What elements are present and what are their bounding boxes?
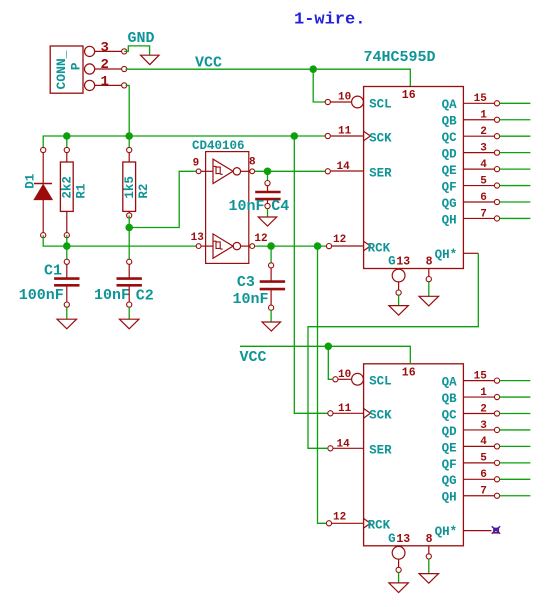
svg-text:RCK: RCK (368, 519, 391, 533)
capacitor C2 (117, 279, 142, 286)
wire C4 to ground (267, 209, 269, 218)
svg-text:74HC595D: 74HC595D (364, 49, 436, 66)
svg-text:2: 2 (480, 126, 487, 138)
wire VCC rail 2 (240, 346, 410, 364)
inverter gate 2 hysteresis mark (214, 241, 223, 249)
pin end gate 2 output (250, 244, 255, 249)
resistor R1 body (60, 162, 73, 211)
wire U1 QA output (500, 102, 531, 104)
U1 RCK clock wedge (364, 241, 371, 251)
U1 SCK pin line (331, 135, 364, 137)
svg-text:P: P (68, 62, 83, 70)
pin end C3 top (269, 263, 274, 268)
wire R1 top stub (66, 136, 68, 150)
svg-text:QA: QA (442, 98, 458, 112)
resistor R2 body (123, 162, 136, 211)
svg-text:QG: QG (442, 474, 457, 488)
pin end U1 SER (325, 169, 330, 174)
svg-text:QH: QH (442, 213, 457, 227)
capacitor C4 (255, 192, 280, 199)
pin end U2 QG (494, 477, 499, 482)
U1 pin 8 line (428, 269, 430, 277)
U2 SCK pin line (331, 412, 364, 414)
wire R2 top stub (128, 136, 130, 150)
svg-text:2k2: 2k2 (60, 176, 74, 199)
connector pin 1 line (95, 84, 122, 86)
U2 RCK pin line (332, 522, 364, 524)
wire U1 G to ground (398, 295, 400, 306)
wire gate2 output to RCK U1 (255, 245, 327, 247)
pin end R1 bottom (64, 233, 69, 238)
U1 QA pin line (463, 102, 494, 104)
pin end connector 2 (122, 66, 127, 71)
junction C3 tap (267, 242, 275, 250)
svg-text:16: 16 (402, 89, 416, 102)
pin end C1 bottom (64, 302, 69, 307)
inverter gate 1 bubble (233, 168, 240, 175)
pin end U2 RCK (326, 521, 331, 526)
svg-text:C1: C1 (44, 263, 62, 280)
U2 QA pin line (463, 380, 494, 382)
junction C4 tap (264, 168, 272, 176)
U1 QB pin line (463, 119, 494, 121)
U1 QF pin line (463, 185, 494, 187)
svg-text:SER: SER (369, 444, 392, 458)
svg-text:14: 14 (337, 161, 351, 173)
diode D1 leads (42, 153, 44, 184)
U2 SCL pin line (338, 378, 352, 380)
wire U1 QH* to U2 SER (308, 253, 478, 448)
pin end gate 2 input (196, 244, 201, 249)
wire U1 QE output (500, 168, 531, 170)
svg-text:G: G (388, 255, 396, 269)
svg-text:8: 8 (249, 156, 256, 168)
pin end D1 top (41, 147, 46, 152)
pin end U1 QD (494, 150, 499, 155)
U2 G pin line (398, 559, 400, 567)
inverter gate 2 bubble (233, 242, 240, 249)
U1 SER pin line (330, 170, 363, 172)
diode D1 lead bottom (42, 200, 44, 233)
ground symbol U2 G (389, 583, 409, 593)
svg-text:SER: SER (369, 166, 392, 180)
wire U1 QD output (500, 152, 531, 154)
svg-text:12: 12 (333, 234, 346, 246)
svg-text:VCC: VCC (240, 349, 267, 366)
inverter U3 body box (206, 152, 249, 264)
svg-text:4: 4 (480, 159, 487, 171)
shift register U2 body (364, 364, 464, 546)
junction R2/C2 node (125, 224, 133, 232)
ground symbol U2 pin8 (419, 574, 439, 584)
pin end gate 1 output (250, 169, 255, 174)
U1 RCK pin line (332, 245, 364, 247)
pin end U1 QB (494, 117, 499, 122)
wire U1 pin8 to ground (428, 282, 430, 297)
pin end U1 QG (494, 199, 499, 204)
svg-text:13: 13 (396, 533, 410, 546)
junction VCC / SCL drop (309, 65, 317, 73)
pin end U1 QH (494, 216, 499, 221)
wire RCK to U2 (318, 246, 327, 523)
connector pin 2 line (95, 68, 122, 70)
pin end U1 QE (494, 167, 499, 172)
pin end C4 top (265, 181, 270, 186)
wire U2 QB output (500, 396, 531, 398)
svg-text:15: 15 (474, 93, 488, 105)
svg-text:3: 3 (101, 40, 109, 56)
svg-text:3: 3 (480, 142, 487, 154)
svg-text:QE: QE (442, 441, 457, 455)
svg-text:1: 1 (480, 387, 487, 399)
svg-text:QD: QD (442, 425, 458, 439)
svg-text:1k5: 1k5 (123, 176, 137, 199)
pin end connector 1 (122, 83, 127, 88)
svg-text:2: 2 (480, 403, 487, 415)
svg-text:12: 12 (254, 233, 267, 245)
U1 G pin line (398, 282, 400, 290)
wire U1 QB output (500, 119, 531, 121)
pin end U2 QH (494, 493, 499, 498)
svg-text:10nF: 10nF (229, 198, 265, 215)
ground symbol C1 (57, 319, 77, 329)
resistor R2 lead top (128, 153, 130, 162)
wire C3 tap down (270, 246, 272, 265)
U1 QC pin line (463, 135, 494, 137)
svg-text:G: G (388, 532, 396, 546)
U2 QH pin line (463, 495, 494, 497)
connector pin 3 line (95, 50, 122, 52)
pin end U1 QF (494, 183, 499, 188)
svg-text:SCL: SCL (369, 97, 392, 111)
svg-text:10: 10 (338, 369, 351, 381)
svg-text:11: 11 (338, 126, 352, 138)
U2 pin 8 line (428, 546, 430, 554)
wire pin3 to GND (124, 46, 149, 55)
svg-text:CONN_: CONN_ (54, 50, 69, 89)
U2 SCL inversion bubble (352, 373, 364, 385)
capacitor C3 lead top (270, 268, 272, 281)
svg-text:7: 7 (480, 486, 487, 498)
wire U1 QF output (500, 185, 531, 187)
connector P body (50, 46, 83, 93)
pin end C1 top (64, 259, 69, 264)
pin end square U2 QH* (494, 528, 498, 532)
svg-text:QE: QE (442, 164, 457, 178)
capacitor C2 lead top (128, 264, 130, 278)
svg-text:1-wire.: 1-wire. (294, 11, 365, 30)
connector pin circle 1 (85, 80, 95, 90)
wire U2 QC output (500, 413, 531, 415)
ground symbol C3 (262, 322, 281, 331)
wire U2 QH output (500, 495, 531, 497)
capacitor C3 lead bottom (270, 289, 272, 305)
svg-text:7: 7 (480, 208, 487, 220)
svg-text:15: 15 (474, 370, 488, 382)
resistor R2 lead bottom (128, 211, 130, 213)
svg-text:13: 13 (191, 232, 205, 244)
junction RCK drop U2 (314, 242, 322, 250)
svg-text:6: 6 (480, 192, 487, 204)
pin end R2 top (127, 147, 132, 152)
pin end R2 bottom (127, 213, 132, 218)
U2 QE pin line (463, 445, 494, 447)
junction VCC2 / SCL drop (325, 343, 333, 351)
junction SCK drop U2 (291, 132, 299, 140)
svg-text:4: 4 (480, 436, 487, 448)
shift register U1 body (364, 87, 464, 269)
U1 QE pin line (463, 168, 494, 170)
U2 SER pin line (330, 447, 363, 449)
U1 QD pin line (463, 152, 494, 154)
U2 SCK clock wedge (364, 409, 371, 419)
svg-text:10nF: 10nF (233, 291, 269, 308)
U2 QG pin line (463, 478, 494, 480)
svg-text:QB: QB (442, 392, 458, 406)
pin end gate 1 input (196, 169, 201, 174)
svg-text:R2: R2 (137, 184, 151, 199)
svg-text:100nF: 100nF (19, 287, 64, 304)
pin end U2 QE (494, 444, 499, 449)
pin end D1 bottom (41, 233, 46, 238)
wire VCC to SCL U1 (313, 69, 328, 102)
pin end C2 bottom (127, 302, 132, 307)
svg-text:SCK: SCK (369, 409, 392, 423)
pin end U2 SCL (333, 377, 338, 382)
inverter gate 1 hysteresis mark (214, 166, 223, 174)
svg-text:RCK: RCK (368, 241, 391, 255)
ground symbol C4 (258, 217, 277, 226)
pin end U2 SCK (328, 411, 333, 416)
wire R2 bottom to C2 and gate input (128, 216, 130, 262)
pin end U1 RCK (326, 244, 331, 249)
wire U2 G to ground (398, 572, 400, 583)
pin end R1 top (64, 147, 69, 152)
inverter gate 1 input pin (201, 170, 213, 172)
U2 RCK clock wedge (364, 519, 371, 529)
U1 SCL inversion bubble (352, 96, 364, 108)
U1 QH pin line (463, 217, 494, 219)
wire U2 QA output (500, 380, 531, 382)
connector pin circle 2 (85, 64, 95, 74)
U1 QH* pin line (463, 252, 478, 254)
pin end U2 G (396, 567, 401, 572)
pin end U1 QA (494, 101, 499, 106)
pin end connector 3 (122, 49, 127, 54)
svg-text:5: 5 (480, 175, 487, 187)
capacitor C3 (260, 282, 285, 290)
pin end U2 SER (328, 446, 333, 451)
U1 QG pin line (463, 201, 494, 203)
svg-text:8: 8 (426, 533, 433, 546)
junction node R1 top (63, 132, 71, 140)
svg-text:QF: QF (442, 180, 457, 194)
U2 QC pin line (463, 413, 494, 415)
U2 G inversion bubble (392, 546, 405, 559)
wire C3 to ground (270, 310, 272, 322)
svg-text:D1: D1 (23, 174, 37, 189)
U2 QB pin line (463, 396, 494, 398)
pin end U1 pin8 (426, 277, 431, 282)
capacitor C2 lead bottom (128, 285, 130, 302)
svg-text:C2: C2 (136, 288, 154, 305)
svg-text:C4: C4 (271, 198, 289, 215)
wire C4 tap down (267, 171, 269, 183)
U1 SCL pin line (330, 101, 351, 103)
connector pin circle 3 (85, 46, 95, 56)
pin end U2 QF (494, 460, 499, 465)
svg-text:14: 14 (337, 438, 351, 450)
wire pin1 to SCK rail (126, 85, 130, 136)
U1 G inversion bubble (392, 269, 405, 282)
resistor R1 lead bottom (66, 211, 68, 232)
svg-text:3: 3 (480, 420, 487, 432)
wire VCC2 to U2 SCL (328, 346, 333, 379)
pin end U2 pin8 (426, 554, 431, 559)
pin end U2 QB (494, 394, 499, 399)
inverter gate 2 output pin (241, 245, 250, 247)
ground symbol U1 G (389, 306, 409, 316)
pin end C4 bottom (265, 203, 270, 208)
pin end U2 QD (494, 427, 499, 432)
svg-text:8: 8 (426, 256, 433, 269)
wire U1 QC output (500, 135, 531, 137)
svg-text:R1: R1 (75, 184, 89, 199)
svg-text:QB: QB (442, 115, 458, 129)
U2 QF pin line (463, 462, 494, 464)
inverter gate 2 triangle (213, 234, 233, 258)
svg-text:1: 1 (101, 74, 109, 90)
wire D1 bottom to rail (43, 235, 196, 246)
svg-text:1: 1 (480, 110, 487, 122)
svg-text:10: 10 (338, 92, 351, 104)
wire R1 bottom / C1 stub (66, 235, 68, 262)
no-connect flag U2 QH* (492, 526, 500, 533)
pin end U2 QA (494, 378, 499, 383)
inverter gate 2 input pin (201, 245, 213, 247)
pin end C2 top (127, 259, 132, 264)
wire SCK to U2 (294, 136, 330, 413)
capacitor C1 lead bottom (66, 285, 68, 302)
pin end U1 SCL (325, 99, 330, 104)
svg-text:10nF: 10nF (94, 287, 130, 304)
svg-text:QH*: QH* (435, 525, 458, 539)
svg-text:QC: QC (442, 408, 458, 422)
capacitor C4 lead top (267, 186, 269, 192)
wire SCK rail (43, 136, 328, 150)
svg-text:12: 12 (333, 511, 346, 523)
wire U1 QG output (500, 201, 531, 203)
wire U2 QG output (500, 478, 531, 480)
ground symbol top (141, 55, 160, 64)
inverter gate 1 output pin (241, 170, 250, 172)
pin end U1 QC (494, 134, 499, 139)
junction node R2 top (125, 132, 133, 140)
svg-text:QA: QA (442, 376, 458, 390)
svg-text:SCK: SCK (369, 131, 392, 145)
wire U2 QE output (500, 445, 531, 447)
pin end U1 SCK (325, 133, 330, 138)
pin end C3 bottom (269, 305, 274, 310)
U2 QH* pin line (463, 530, 491, 532)
wire U2 QD output (500, 429, 531, 431)
svg-text:QH*: QH* (435, 248, 458, 262)
pin end U2 QC (494, 411, 499, 416)
svg-text:16: 16 (402, 367, 416, 380)
svg-text:2: 2 (101, 57, 109, 73)
diode D1 cathode bar (34, 183, 52, 185)
svg-text:QG: QG (442, 197, 457, 211)
resistor R1 lead top (66, 153, 68, 162)
svg-text:VCC: VCC (195, 55, 222, 72)
svg-text:QD: QD (442, 148, 458, 162)
wire U1 QH output (500, 217, 531, 219)
svg-text:C3: C3 (237, 274, 255, 291)
wire U2 pin8 to ground (428, 559, 430, 574)
capacitor C1 (54, 279, 79, 286)
U1 SCK clock wedge (364, 131, 371, 141)
inverter gate 1 triangle (213, 159, 233, 183)
diode D1 body (34, 185, 52, 200)
capacitor C4 lead bottom (267, 199, 269, 203)
svg-text:13: 13 (396, 256, 410, 269)
svg-text:9: 9 (193, 158, 200, 170)
wire node to U3A input (129, 171, 196, 227)
wire gate1 output to SER U1 (255, 170, 326, 172)
svg-text:QF: QF (442, 458, 457, 472)
svg-text:QH: QH (442, 491, 457, 505)
svg-text:QC: QC (442, 131, 458, 145)
svg-text:6: 6 (480, 469, 487, 481)
U2 QD pin line (463, 429, 494, 431)
ground symbol U1 pin8 (419, 296, 439, 306)
wire C2 to ground (128, 307, 130, 319)
capacitor C1 lead top (66, 264, 68, 278)
junction node R1 bottom (63, 242, 71, 250)
svg-text:SCL: SCL (369, 375, 392, 389)
svg-text:CD40106: CD40106 (192, 139, 245, 153)
ground symbol C2 (119, 319, 139, 329)
wire VCC rail (126, 69, 411, 86)
wire U2 QF output (500, 462, 531, 464)
wire C1 to ground (66, 307, 68, 319)
svg-text:GND: GND (128, 30, 155, 47)
svg-text:11: 11 (338, 403, 352, 415)
pin end U1 G (396, 290, 401, 295)
svg-text:5: 5 (480, 453, 487, 465)
